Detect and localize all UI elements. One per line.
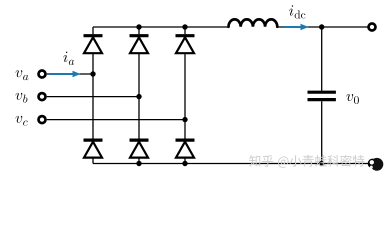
junction top rail leg2 — [136, 24, 141, 29]
junction top rail leg3 — [182, 24, 187, 29]
terminal output minus — [369, 160, 376, 167]
label i_a — [63, 52, 74, 65]
terminal vc — [39, 116, 46, 123]
diode D2 — [176, 140, 195, 158]
junction bottom rail capacitor — [319, 161, 324, 166]
label v_0 — [346, 94, 358, 104]
terminal output plus — [369, 24, 376, 31]
label i_dc — [289, 5, 305, 18]
current arrow i_a — [49, 71, 81, 78]
diode D3 — [130, 36, 149, 54]
junction dc node — [319, 24, 324, 29]
diode D6 — [130, 140, 149, 158]
junction bottom rail leg2 — [136, 161, 141, 166]
wire phase c — [47, 119, 185, 121]
wire phase b — [47, 96, 139, 98]
wire bottom rail — [93, 163, 369, 165]
junction node b — [136, 94, 141, 99]
diode D1 — [84, 36, 103, 54]
wire leg 2 — [138, 27, 140, 164]
current arrow i_dc — [283, 24, 309, 31]
junction node c — [182, 117, 187, 122]
diode D4 — [84, 140, 103, 158]
label v_a — [16, 70, 29, 80]
watermark zhihu — [249, 155, 364, 168]
watermark avatar disc — [370, 158, 384, 171]
diode D5 — [176, 36, 195, 54]
junction bottom rail leg3 — [182, 161, 187, 166]
capacitor C — [308, 92, 336, 99]
terminal va — [39, 71, 46, 78]
terminal vb — [39, 93, 46, 100]
wire leg 1 — [92, 27, 94, 164]
label v_b — [16, 93, 28, 103]
wire capacitor branch — [321, 27, 323, 164]
wire leg 3 — [184, 27, 186, 164]
inductor L — [228, 19, 277, 26]
junction node a — [90, 71, 95, 76]
label v_c — [16, 116, 28, 126]
wire phase a — [47, 73, 93, 75]
wire top rail — [93, 26, 368, 28]
